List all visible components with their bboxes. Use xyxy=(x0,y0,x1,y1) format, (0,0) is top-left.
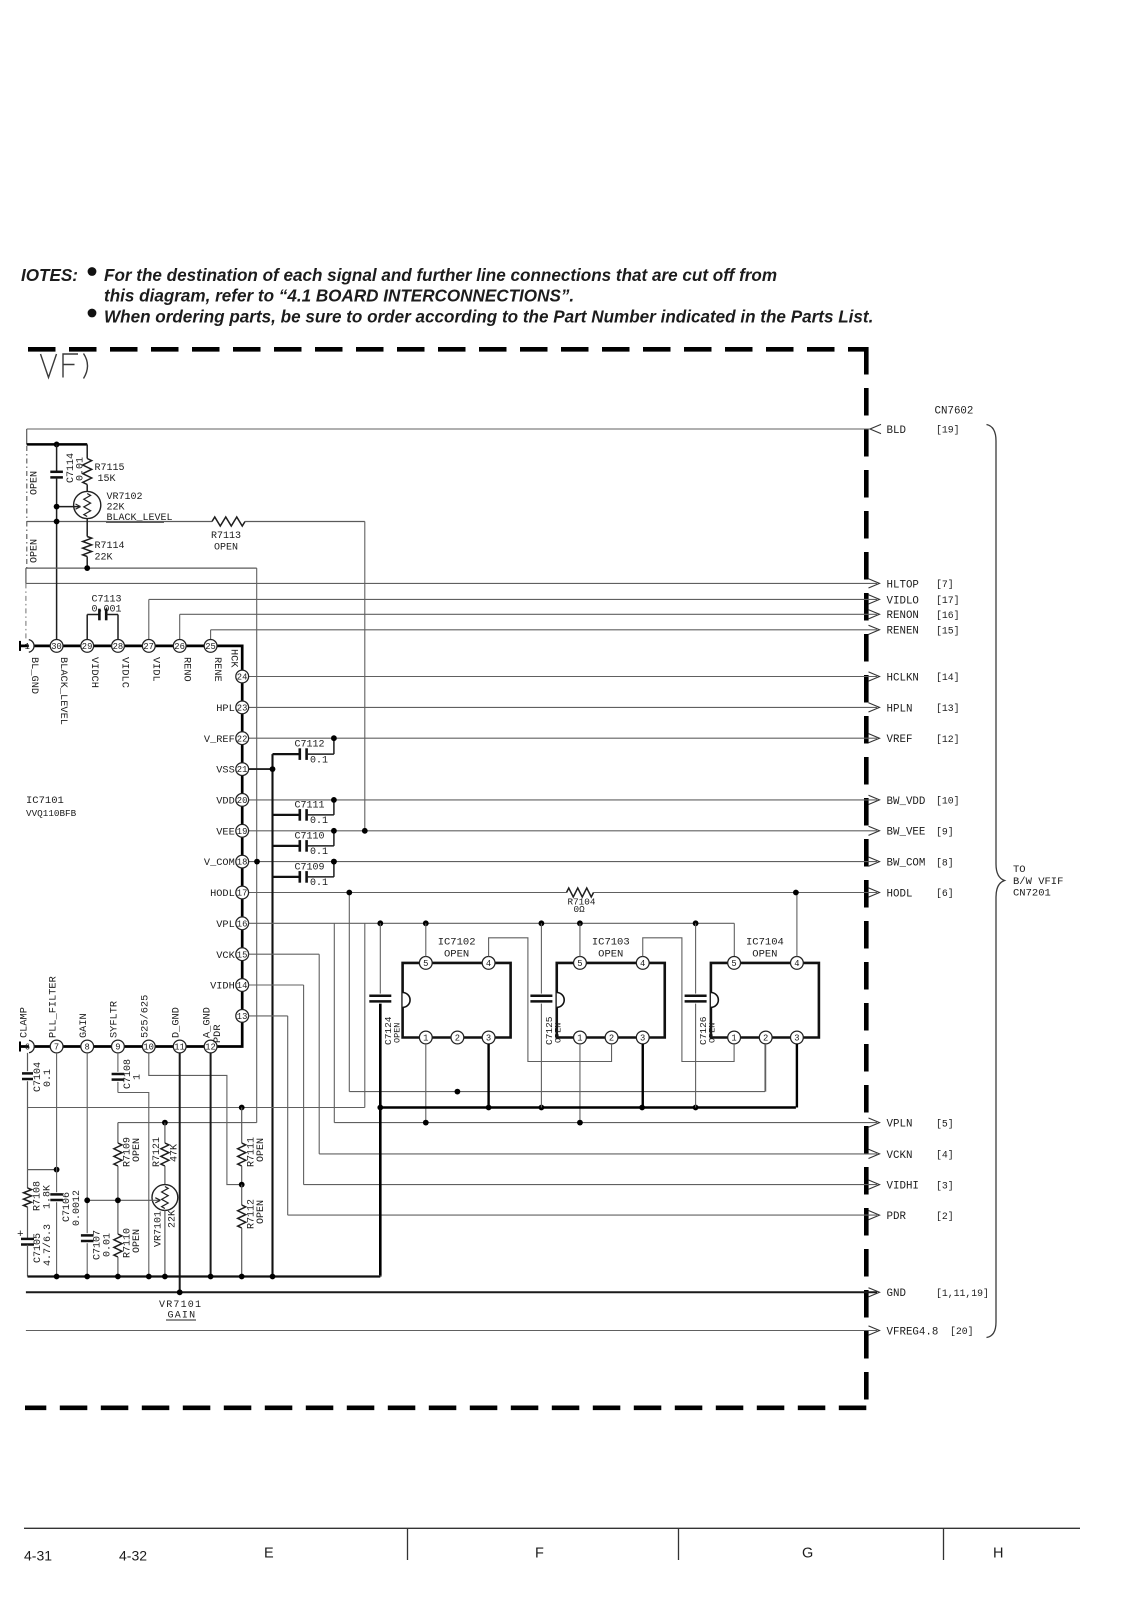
wire IC7103 pin3 ground xyxy=(642,1044,644,1108)
svg-text:RENEN: RENEN xyxy=(887,626,919,638)
svg-text:G: G xyxy=(802,1546,813,1562)
wire D_GND column xyxy=(179,1053,181,1292)
svg-text:BL_GND: BL_GND xyxy=(28,657,40,694)
IC7101 pin 11 xyxy=(173,1040,186,1053)
svg-text:VR7102: VR7102 xyxy=(107,492,143,503)
svg-text:VPLN: VPLN xyxy=(887,1119,913,1131)
svg-text:[6]: [6] xyxy=(936,888,954,899)
wire BW_VDD line xyxy=(249,799,877,801)
svg-text:26: 26 xyxy=(174,642,185,652)
wire IC7102 pin3 ground xyxy=(487,1044,489,1108)
net PDR connector label xyxy=(869,1211,880,1220)
IC7101 pin 25 xyxy=(204,640,217,653)
svg-text:HPL: HPL xyxy=(216,703,235,715)
footer tick 3 xyxy=(943,1528,945,1560)
svg-text:27: 27 xyxy=(143,642,154,652)
wire PDR escape xyxy=(287,1016,289,1215)
net GND connector label xyxy=(869,1288,880,1297)
capacitor C7110 xyxy=(273,845,300,847)
svg-text:4-32: 4-32 xyxy=(119,1548,147,1564)
wire VPL escape xyxy=(333,923,335,1122)
svg-text:1: 1 xyxy=(25,642,30,652)
svg-text:29: 29 xyxy=(82,642,93,652)
svg-text:[3]: [3] xyxy=(936,1180,954,1191)
svg-text:VDD: VDD xyxy=(216,796,235,808)
svg-text:0.001: 0.001 xyxy=(92,605,122,616)
wire R7113 to VEE xyxy=(364,522,366,831)
svg-text:5: 5 xyxy=(731,959,736,969)
svg-text:20: 20 xyxy=(237,796,248,806)
svg-text:PLL_FILTER: PLL_FILTER xyxy=(47,976,59,1038)
IC IC7104 xyxy=(711,963,819,1038)
wire VFREG4.8 line xyxy=(26,1330,877,1332)
wire clamp node xyxy=(28,1169,57,1171)
wire IC7103 pin5 xyxy=(579,923,581,956)
footer tick 1 xyxy=(407,1528,409,1560)
svg-text:GAIN: GAIN xyxy=(78,1013,90,1038)
svg-text:1: 1 xyxy=(577,1034,582,1044)
net BW_COM connector label xyxy=(869,857,880,866)
svg-text:BLD: BLD xyxy=(887,425,906,437)
svg-text:PDR: PDR xyxy=(887,1211,907,1223)
curly brace to CN7201 xyxy=(987,425,1005,1338)
capacitor C7104 xyxy=(27,1053,29,1071)
svg-text:HCLKN: HCLKN xyxy=(887,672,919,684)
svg-text:BW_COM: BW_COM xyxy=(887,858,926,870)
wire RENEN line xyxy=(211,629,877,631)
IC7101 pin 29 xyxy=(81,640,94,653)
IC7101 pin 17 xyxy=(236,886,249,899)
svg-text:22: 22 xyxy=(237,734,248,744)
svg-text:OPEN: OPEN xyxy=(708,1023,718,1043)
svg-text:VIDH: VIDH xyxy=(210,981,235,993)
svg-text:7: 7 xyxy=(54,1043,59,1053)
svg-text:C7111: C7111 xyxy=(295,800,325,811)
capacitor C7109 xyxy=(273,876,300,878)
svg-text:15K: 15K xyxy=(98,474,116,485)
resistor R7115 xyxy=(86,444,88,458)
footer grid line xyxy=(24,1527,1080,1529)
svg-text:[15]: [15] xyxy=(936,626,960,637)
wire BW_VEE line xyxy=(249,830,877,832)
IC7101 pin 12 xyxy=(204,1040,217,1053)
wire VPLN line xyxy=(334,1122,877,1124)
svg-text:22K: 22K xyxy=(95,553,113,564)
svg-text:47K: 47K xyxy=(170,1144,181,1162)
net VFREG4.8 connector label xyxy=(869,1326,880,1335)
svg-text:C7112: C7112 xyxy=(295,740,325,751)
svg-text:3: 3 xyxy=(486,1034,491,1044)
svg-text:5: 5 xyxy=(423,959,428,969)
svg-text:3: 3 xyxy=(794,1034,799,1044)
svg-text:OPEN: OPEN xyxy=(444,949,469,961)
resistor R7114 xyxy=(86,519,88,537)
svg-text:OPEN: OPEN xyxy=(132,1229,143,1253)
svg-text:CN7201: CN7201 xyxy=(1013,888,1051,900)
IC IC7103 xyxy=(557,963,665,1038)
svg-text:VIDLO: VIDLO xyxy=(887,595,919,607)
svg-text:V_COM: V_COM xyxy=(204,857,235,869)
svg-text:[12]: [12] xyxy=(936,734,960,745)
wire top rail to C7114/R7115 xyxy=(26,429,28,444)
svg-text:VIDL: VIDL xyxy=(149,657,161,682)
IC IC7102 xyxy=(403,963,511,1038)
capacitor C7106 xyxy=(50,1193,63,1196)
svg-text:IC7103: IC7103 xyxy=(592,937,630,949)
IC7101 pin 18 xyxy=(236,855,249,868)
svg-text:VEE: VEE xyxy=(216,826,235,838)
capacitor C7125 xyxy=(540,923,542,993)
wire HODL line (with R7104 gap) xyxy=(249,892,567,894)
svg-text:4: 4 xyxy=(486,959,491,969)
IC7101 pin 16 xyxy=(236,917,249,930)
svg-text:C7109: C7109 xyxy=(295,862,325,873)
svg-text:[14]: [14] xyxy=(936,672,960,683)
IC7101 pin 8 xyxy=(81,1040,94,1053)
wire VIDH escape xyxy=(303,985,305,1185)
svg-text:CN7602: CN7602 xyxy=(935,406,974,418)
IC7101 pin 22 xyxy=(236,732,249,745)
IC7101 pin 10 xyxy=(142,1040,155,1053)
IC7101 pin 20 xyxy=(236,794,249,807)
wire RENON line xyxy=(180,613,877,615)
svg-text:VFREG4.8: VFREG4.8 xyxy=(887,1326,939,1338)
wire SYFLTR path down xyxy=(118,1093,149,1277)
capacitor C7107 xyxy=(81,1234,94,1237)
svg-text:22K: 22K xyxy=(107,503,125,514)
wire IC7104 pin4 to HODL xyxy=(796,893,798,957)
svg-text:OPEN: OPEN xyxy=(214,543,238,554)
svg-text:0.0012: 0.0012 xyxy=(72,1190,83,1226)
svg-text:0.1: 0.1 xyxy=(43,1069,54,1087)
svg-text:[4]: [4] xyxy=(936,1150,954,1161)
svg-text:2: 2 xyxy=(763,1034,768,1044)
resistor R7113 xyxy=(212,517,245,526)
svg-text:10: 10 xyxy=(143,1043,154,1053)
svg-text:17: 17 xyxy=(237,889,248,899)
svg-text:RENO: RENO xyxy=(180,657,192,682)
IC7101 pin 26 xyxy=(173,640,186,653)
wire IC7102 pin1 to VPLN xyxy=(425,1044,427,1123)
wire reference to pin31 xyxy=(25,583,27,639)
svg-text:4: 4 xyxy=(794,959,799,969)
wire analog common rail xyxy=(28,1275,381,1277)
svg-text:8: 8 xyxy=(85,1043,90,1053)
net VCKN connector label xyxy=(869,1149,880,1158)
svg-text:HLTOP: HLTOP xyxy=(887,579,919,591)
svg-text:9: 9 xyxy=(115,1043,120,1053)
svg-text:OPEN: OPEN xyxy=(752,949,777,961)
svg-text:0.1: 0.1 xyxy=(310,847,328,858)
svg-text:22K: 22K xyxy=(168,1210,179,1228)
IC7101 pin 24 xyxy=(236,670,249,683)
svg-text:OPEN: OPEN xyxy=(30,539,41,563)
svg-text:OPEN: OPEN xyxy=(132,1138,143,1162)
wire BW_COM line xyxy=(249,861,877,863)
resistor R7112 xyxy=(241,1185,243,1205)
svg-text:PDR: PDR xyxy=(212,1024,224,1043)
wire VREF line xyxy=(249,737,877,739)
wire C7112 corner xyxy=(272,753,274,755)
svg-text:0.1: 0.1 xyxy=(310,816,328,827)
svg-text:[8]: [8] xyxy=(936,857,954,868)
net HCLKN connector label xyxy=(869,672,880,681)
net BW_VEE connector label xyxy=(869,826,880,835)
svg-text:VR7101: VR7101 xyxy=(153,1211,164,1247)
IC7101 pin 14 xyxy=(236,979,249,992)
svg-text:VR7101: VR7101 xyxy=(159,1300,202,1311)
net RENON connector label xyxy=(869,610,880,619)
svg-text:1.8K: 1.8K xyxy=(43,1185,54,1209)
wire HCLKN line xyxy=(249,676,877,678)
wire HLTOP branch down to gain stage xyxy=(256,568,258,1123)
svg-text:1: 1 xyxy=(731,1034,736,1044)
IC7101 pin 27 xyxy=(142,640,155,653)
open component left mid xyxy=(26,522,28,569)
svg-text:BW_VDD: BW_VDD xyxy=(887,796,926,808)
resistor R7111 xyxy=(241,1108,243,1144)
wire HLTOP line xyxy=(26,582,877,584)
IC7101 pin 19 xyxy=(236,824,249,837)
capacitor C7112 xyxy=(273,753,300,755)
resistor R7121 xyxy=(164,1123,166,1143)
svg-text:[19]: [19] xyxy=(936,425,960,436)
wire HPLN line xyxy=(249,706,877,708)
svg-text:18: 18 xyxy=(237,858,248,868)
wire IC7102 pin5 xyxy=(425,923,427,956)
svg-text:0Ω: 0Ω xyxy=(574,904,586,915)
capacitor C7105 electrolytic xyxy=(27,1207,29,1239)
svg-text:0.01: 0.01 xyxy=(76,457,87,481)
svg-text:2: 2 xyxy=(455,1034,460,1044)
svg-text:For the destination of each si: For the destination of each signal and f… xyxy=(104,266,777,285)
wire A_GND column xyxy=(210,1053,212,1277)
wire VPL rail (delay line top) xyxy=(249,922,735,924)
svg-text:When ordering parts, be sure t: When ordering parts, be sure to order ac… xyxy=(104,308,873,327)
svg-text:HODL: HODL xyxy=(887,888,913,900)
svg-text:OPEN: OPEN xyxy=(256,1138,267,1162)
svg-text:525/625: 525/625 xyxy=(140,995,152,1038)
net RENEN connector label xyxy=(869,625,880,634)
svg-text:1: 1 xyxy=(423,1034,428,1044)
IC7101 pin 21 xyxy=(236,763,249,776)
wire VCKN line xyxy=(319,1153,877,1155)
svg-text:1: 1 xyxy=(133,1074,144,1080)
wire IC7104 pin3 ground xyxy=(796,1044,798,1108)
svg-text:[7]: [7] xyxy=(936,579,954,590)
svg-text:R7115: R7115 xyxy=(95,463,125,474)
svg-text:C7110: C7110 xyxy=(295,831,325,842)
IC7101 pin 6 xyxy=(29,1040,34,1053)
dashed page border xyxy=(28,347,866,352)
resistor R7109 xyxy=(117,1123,119,1143)
svg-text:0.1: 0.1 xyxy=(310,755,328,766)
IC7101 pin 23 xyxy=(236,701,249,714)
net VREF connector label xyxy=(869,734,880,743)
svg-text:OPEN: OPEN xyxy=(30,471,41,495)
svg-text:E: E xyxy=(264,1546,274,1562)
wire video feed line xyxy=(28,1107,365,1109)
svg-text:SYFLTR: SYFLTR xyxy=(109,1001,121,1038)
svg-text:[20]: [20] xyxy=(950,1326,974,1337)
svg-text:6: 6 xyxy=(25,1043,30,1053)
capacitor C7114 xyxy=(56,444,58,471)
svg-text:19: 19 xyxy=(237,827,248,837)
resistor R7108 xyxy=(27,1170,29,1188)
open component left top xyxy=(26,446,28,522)
wire VCK escape xyxy=(318,954,320,1154)
footer tick 2 xyxy=(678,1528,680,1560)
svg-text:VCK: VCK xyxy=(216,950,235,962)
IC7101 pin 7 xyxy=(50,1040,63,1053)
svg-text:0.1: 0.1 xyxy=(310,878,328,889)
wire GND line xyxy=(26,1291,877,1293)
capacitor C7111 xyxy=(273,814,300,816)
wire 525/625 select path xyxy=(149,1053,242,1185)
svg-text:VSS: VSS xyxy=(216,765,235,777)
svg-text:[17]: [17] xyxy=(936,595,960,606)
svg-text:TO: TO xyxy=(1013,864,1026,876)
wire VIDHI line xyxy=(304,1184,877,1186)
svg-text:13: 13 xyxy=(237,1012,248,1022)
svg-text:[13]: [13] xyxy=(936,703,960,714)
IC7101 pin 31 xyxy=(29,640,34,653)
wire gain wiper xyxy=(87,1199,160,1201)
svg-text:[9]: [9] xyxy=(936,827,954,838)
svg-text:R7114: R7114 xyxy=(95,541,125,552)
wire VIDLO line xyxy=(149,598,877,600)
net BW_VDD connector label xyxy=(869,795,880,804)
svg-text:21: 21 xyxy=(237,765,248,775)
wire coupling IC7102 pin4 to IC7103 pin2 xyxy=(489,938,612,1062)
svg-text:R7121: R7121 xyxy=(152,1137,163,1167)
wire black-level node xyxy=(27,521,212,523)
svg-text:IC7102: IC7102 xyxy=(438,937,476,949)
wire PDR line xyxy=(288,1214,877,1216)
svg-text:HPLN: HPLN xyxy=(887,703,913,715)
resistor R7110 xyxy=(117,1200,119,1234)
net HPLN connector label xyxy=(869,703,880,712)
svg-text:12: 12 xyxy=(205,1043,216,1053)
svg-text:VIDHI: VIDHI xyxy=(887,1181,919,1193)
net VPLN connector label xyxy=(869,1118,880,1127)
wire HODL branch to delay line xyxy=(348,893,350,1092)
wire IC7104 pin2 to HODL branch xyxy=(765,1044,767,1092)
svg-text:OPEN: OPEN xyxy=(256,1200,267,1224)
svg-text:[1,11,19]: [1,11,19] xyxy=(936,1288,989,1299)
svg-text:15: 15 xyxy=(237,950,248,960)
svg-text:BLACK_LEVEL: BLACK_LEVEL xyxy=(57,657,69,725)
svg-text:OPEN: OPEN xyxy=(553,1023,563,1043)
svg-text:4: 4 xyxy=(640,959,645,969)
IC7101 pin 13 xyxy=(236,1010,249,1023)
svg-text:[16]: [16] xyxy=(936,610,960,621)
potentiometer VR7101 xyxy=(152,1185,178,1211)
svg-text:28: 28 xyxy=(113,642,124,652)
IC7101 pin 15 xyxy=(236,948,249,961)
svg-text:30: 30 xyxy=(51,642,62,652)
svg-text:14: 14 xyxy=(237,981,248,991)
net HODL connector label xyxy=(869,888,880,897)
svg-text:23: 23 xyxy=(237,704,248,714)
wire video feed riser xyxy=(364,923,366,1107)
svg-text:IC7104: IC7104 xyxy=(746,937,784,949)
svg-text:4.7/6.3: 4.7/6.3 xyxy=(42,1224,54,1266)
wire PLL_FILTER column xyxy=(56,1053,58,1192)
resistor R7104 xyxy=(567,888,594,897)
IC7101 pin 30 xyxy=(50,640,63,653)
svg-text:16: 16 xyxy=(237,919,248,929)
svg-text:GND: GND xyxy=(887,1288,906,1300)
svg-text:OPEN: OPEN xyxy=(392,1023,402,1043)
svg-text:[10]: [10] xyxy=(936,796,960,807)
svg-text:11: 11 xyxy=(174,1043,185,1053)
svg-text:3: 3 xyxy=(640,1034,645,1044)
svg-text:VIDLC: VIDLC xyxy=(119,657,131,688)
capacitor C7124 xyxy=(379,923,381,993)
svg-text:VREF: VREF xyxy=(887,734,913,746)
svg-text:HODL: HODL xyxy=(210,888,235,900)
potentiometer VR7102 xyxy=(74,491,101,518)
net VIDLO connector label xyxy=(869,595,880,604)
svg-text:+: + xyxy=(17,1229,24,1241)
svg-text:HCK: HCK xyxy=(228,649,240,668)
svg-text:OPEN: OPEN xyxy=(598,949,623,961)
wire BLD line xyxy=(27,428,870,430)
svg-text:F: F xyxy=(535,1546,544,1562)
svg-text:4-31: 4-31 xyxy=(24,1548,52,1564)
svg-text:VCKN: VCKN xyxy=(887,1150,913,1162)
wire clamp reference rail xyxy=(26,567,257,569)
svg-text:BW_VEE: BW_VEE xyxy=(887,827,926,839)
svg-text:IOTES:: IOTES: xyxy=(21,266,78,285)
svg-text:[2]: [2] xyxy=(936,1211,954,1222)
net HLTOP connector label xyxy=(869,579,880,588)
svg-text:VVQ110BFB: VVQ110BFB xyxy=(26,808,77,819)
svg-text:5: 5 xyxy=(577,959,582,969)
IC U-IC7101 outline xyxy=(20,646,242,1047)
capacitor C7126 xyxy=(695,923,697,993)
capacitor C7113 xyxy=(86,615,88,640)
caption VF) xyxy=(41,354,57,378)
svg-text:24: 24 xyxy=(237,673,248,683)
svg-text:[5]: [5] xyxy=(936,1118,954,1129)
svg-text:IC7101: IC7101 xyxy=(26,795,64,807)
svg-text:CLAMP: CLAMP xyxy=(18,1007,30,1038)
svg-text:R7113: R7113 xyxy=(211,531,241,542)
net VIDHI connector label xyxy=(869,1180,880,1189)
svg-text:25: 25 xyxy=(205,642,216,652)
svg-text:RENE: RENE xyxy=(211,657,223,682)
svg-text:VIDCH: VIDCH xyxy=(88,657,100,688)
wire coupling IC7103 pin4 to IC7104 pin1 xyxy=(643,938,734,1062)
svg-text:this diagram, refer to “4.1 BO: this diagram, refer to “4.1 BOARD INTERC… xyxy=(104,287,574,306)
capacitor C7108 xyxy=(117,1053,119,1072)
svg-text:B/W VFIF: B/W VFIF xyxy=(1013,876,1063,888)
svg-text:V_REF: V_REF xyxy=(204,734,235,746)
wire GAIN column xyxy=(86,1053,88,1233)
svg-text:VPL: VPL xyxy=(216,919,235,931)
wire IC7103 pin1 to VPLN xyxy=(579,1044,581,1123)
svg-text:2: 2 xyxy=(609,1034,614,1044)
net BLD connector label xyxy=(870,424,881,433)
svg-text:H: H xyxy=(993,1546,1003,1562)
svg-text:D_GND: D_GND xyxy=(171,1007,183,1038)
wire VSS bus xyxy=(271,754,273,1276)
IC7101 pin 9 xyxy=(112,1040,125,1053)
svg-text:0.01: 0.01 xyxy=(103,1233,114,1257)
IC7101 pin 28 xyxy=(112,640,125,653)
